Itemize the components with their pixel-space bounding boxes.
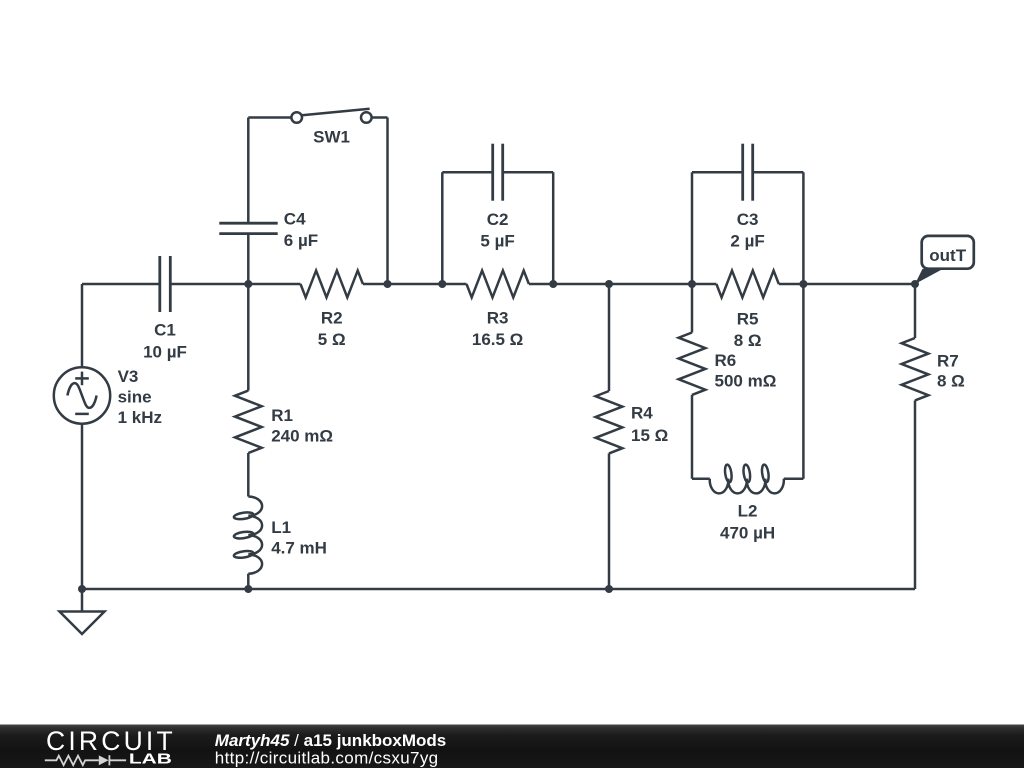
resistor R1 [235,391,262,453]
resistor R5 [716,271,778,298]
wire R2 to C2 box [363,283,442,286]
node R4 bottom junction dot [605,585,613,593]
switch SW1 [291,109,371,123]
resistor R7 [902,338,929,400]
svg-text:C1: C1 [154,321,176,340]
wire bottom rail [82,588,915,591]
resistor R2 [301,271,363,298]
resistor R3 [467,271,529,298]
svg-text:LAB: LAB [129,751,172,768]
voltage source V3 [54,284,110,589]
svg-text:R7: R7 [937,351,959,370]
wire R7 top lead [914,284,917,338]
svg-text:R5: R5 [737,309,759,328]
svg-text:http://circuitlab.com/csxu7yg: http://circuitlab.com/csxu7yg [215,749,439,768]
svg-text:C2: C2 [487,210,509,229]
wire C3 box top right [753,171,804,174]
wire R6 bottom lead [691,395,694,479]
svg-text:R4: R4 [631,404,653,423]
svg-text:4.7 mH: 4.7 mH [271,539,327,558]
resistor R6 [679,333,706,395]
svg-text:outT: outT [929,246,966,265]
footer bar [0,725,1024,768]
capacitor C4 [219,223,277,233]
svg-text:8 Ω: 8 Ω [734,331,762,350]
svg-text:240 mΩ: 240 mΩ [271,427,333,446]
wire L1 bottom lead [247,574,250,589]
wire node A up to C4 [247,235,250,284]
node B junction dot (switch join) [384,280,392,288]
svg-text:L2: L2 [738,502,758,521]
svg-text:C3: C3 [737,210,759,229]
wire switch top left [248,116,291,119]
svg-text:8 Ω: 8 Ω [937,372,965,391]
ground [60,589,105,634]
svg-text:L1: L1 [271,518,291,537]
inductor L2 [710,464,784,493]
wire R3 right lead [529,283,553,286]
capacitor C1 [160,256,171,312]
wire R4 top lead [608,284,611,391]
wire C2 box top left [442,171,492,174]
wire C3 box top left [692,171,743,174]
node R4 top junction dot [605,280,613,288]
svg-text:1 kHz: 1 kHz [118,408,162,427]
capacitor C2 [493,144,503,201]
node C2 right junction dot [549,280,557,288]
wire top rail left (V3 to C1) [82,283,160,286]
wire R4 bottom lead [608,453,611,589]
wire C2 box top right [503,171,554,174]
wire R5 left lead [692,283,716,286]
net flag outT [915,236,974,284]
logo resistor-diode glyph [45,755,126,765]
wire L2 right lead [784,477,804,480]
svg-text:V3: V3 [118,367,139,386]
wire C4 up to switch [247,118,250,223]
svg-text:R6: R6 [715,351,737,370]
svg-text:5 Ω: 5 Ω [318,330,346,349]
node C3 left junction dot [688,280,696,288]
wire C3 box left vertical [691,172,694,284]
svg-text:6 µF: 6 µF [284,231,318,250]
svg-text:R1: R1 [271,406,293,425]
node ground junction dot [78,585,86,593]
svg-text:2 µF: 2 µF [730,232,764,251]
svg-text:Martyh45 / a15 junkboxMods: Martyh45 / a15 junkboxMods [215,731,446,750]
wire L2 left lead [692,477,710,480]
capacitor C3 [743,144,753,201]
wire C2 box to C3 box [553,283,692,286]
wire C3 box right vertical [802,172,805,284]
wire C3 box to outT [803,283,915,286]
wire C3 box right lower vertical [802,284,805,479]
svg-text:5 µF: 5 µF [480,232,514,251]
svg-text:sine: sine [118,388,152,407]
wire switch right [372,116,388,119]
wire R7 bottom lead [914,400,917,589]
wire C1 to node A [170,283,300,286]
node outT junction dot [911,280,919,288]
node L1 bottom junction dot [244,585,252,593]
wire C2 box right vertical [552,172,555,284]
wire C2 left lead [442,283,466,286]
node A junction dot [244,280,252,288]
svg-text:R2: R2 [321,309,343,328]
svg-text:500 mΩ: 500 mΩ [715,371,777,390]
resistor R4 [596,391,623,453]
wire switch down to rail [386,118,389,285]
svg-text:16.5 Ω: 16.5 Ω [472,330,523,349]
svg-text:SW1: SW1 [313,128,350,147]
node C3 right junction dot [799,280,807,288]
wire C2 box left vertical [441,172,444,284]
wire R1 top lead [247,284,250,391]
svg-text:15 Ω: 15 Ω [631,426,668,445]
wire R5 right lead [779,283,804,286]
svg-text:10 µF: 10 µF [143,343,187,362]
svg-text:470 µH: 470 µH [720,523,775,542]
wire R1 to L1 [247,453,250,497]
svg-text:R3: R3 [487,309,509,328]
svg-text:C4: C4 [284,210,306,229]
inductor L1 [233,497,262,574]
node C2 left junction dot [438,280,446,288]
wire R6 top lead [691,284,694,333]
